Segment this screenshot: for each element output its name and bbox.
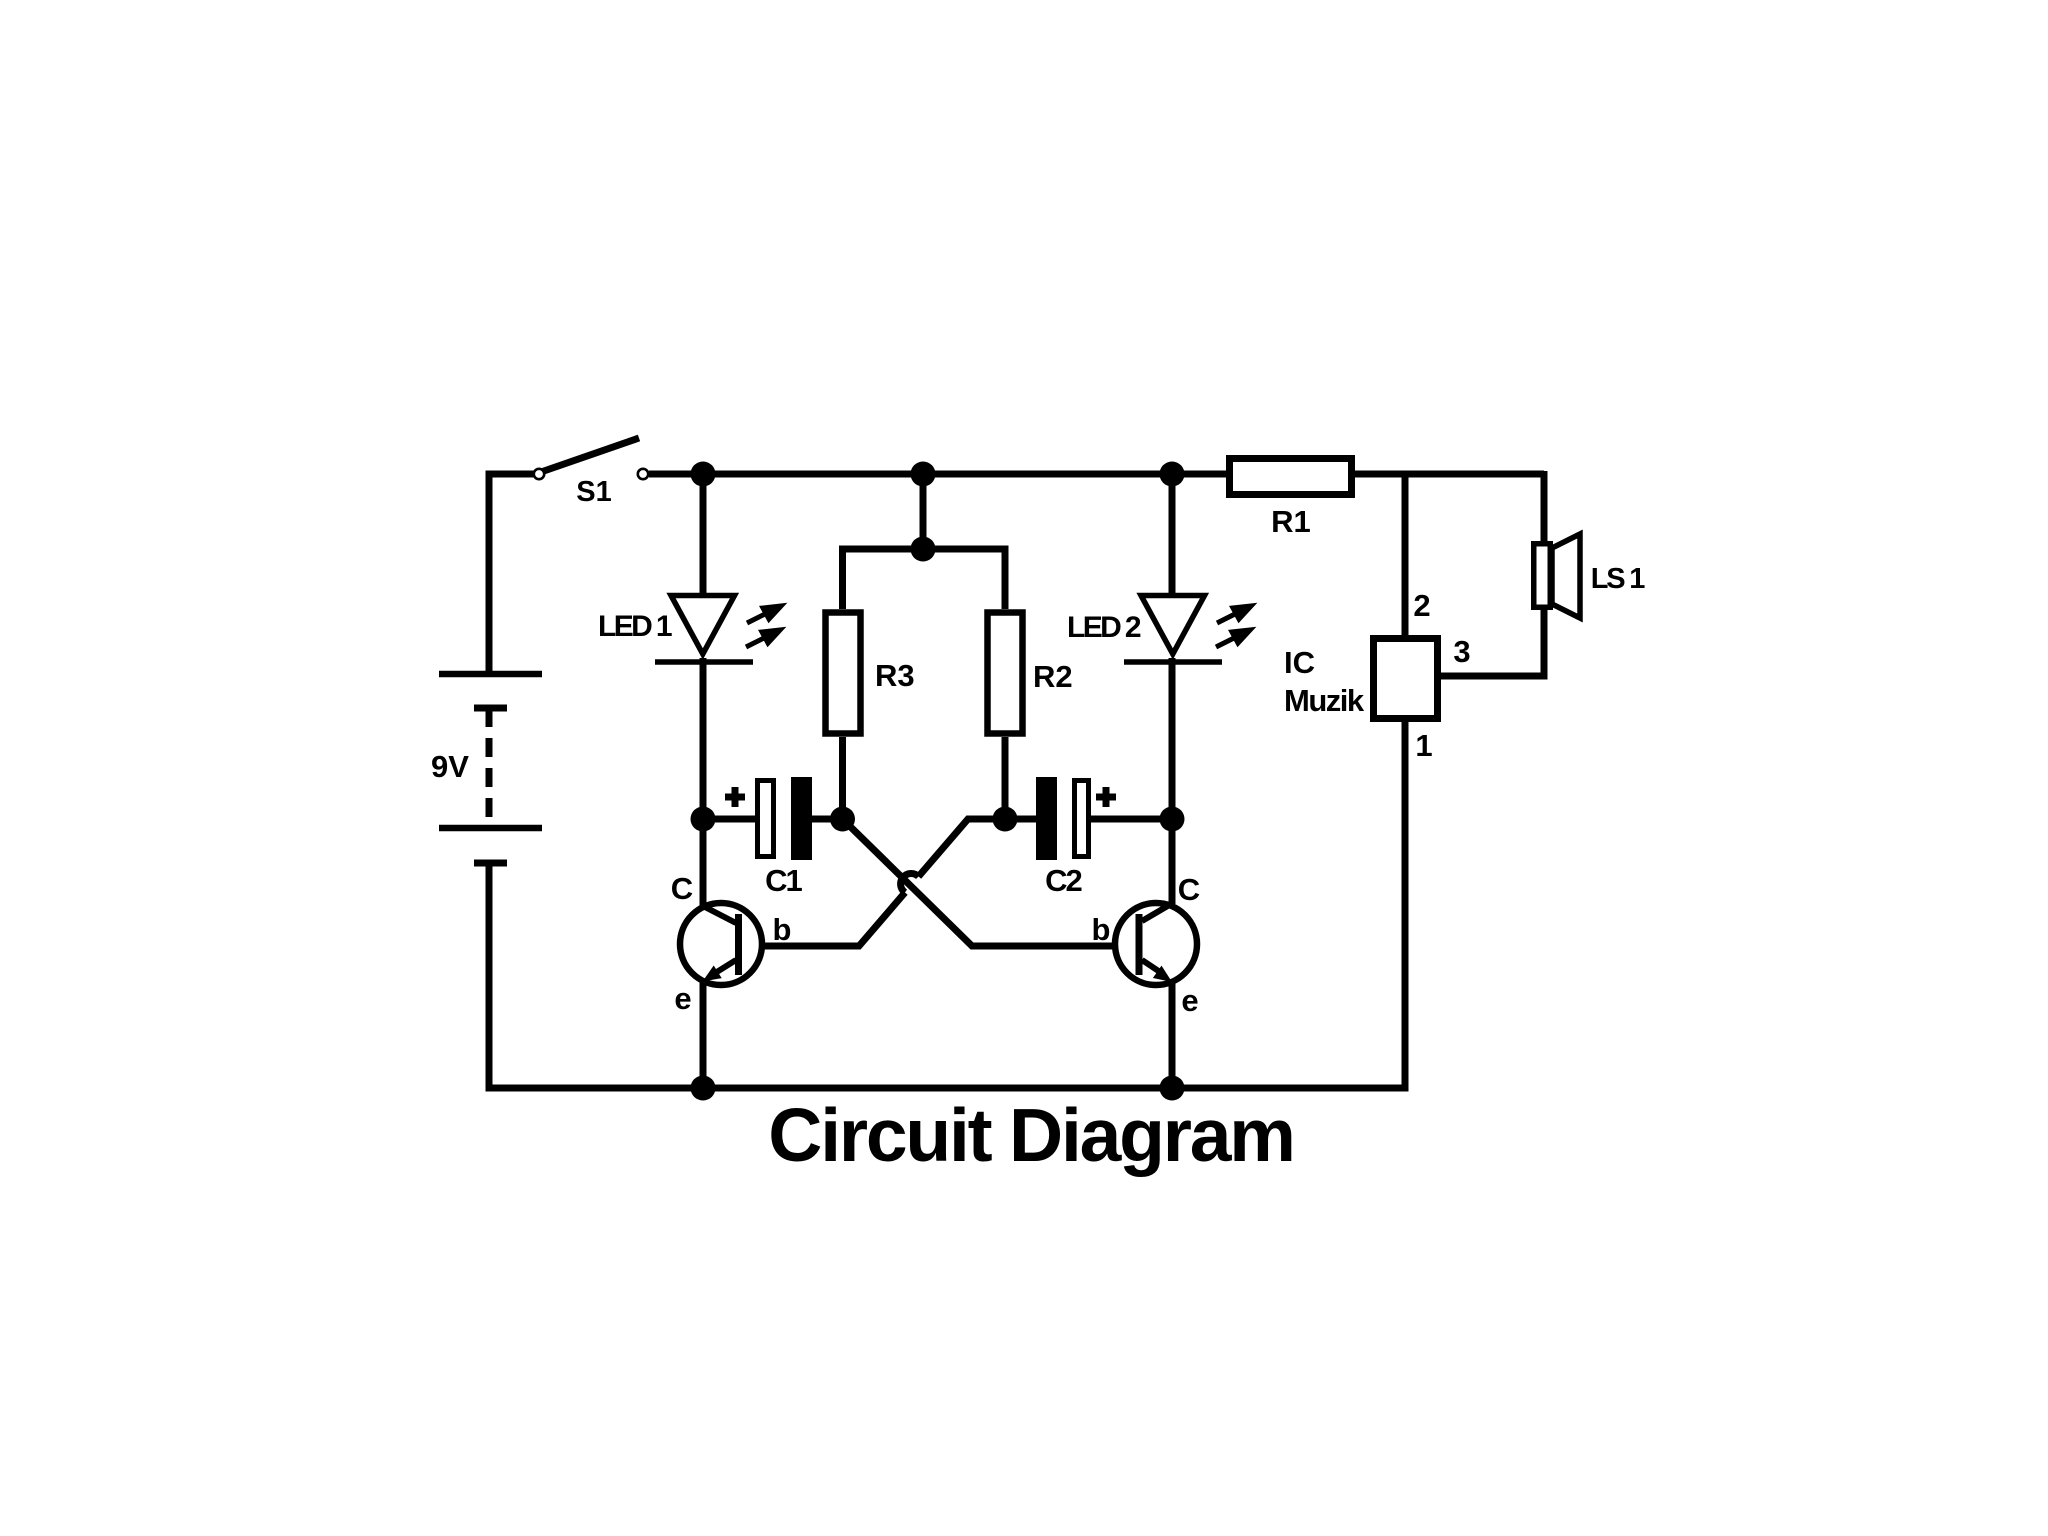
junction node G C2 left: [993, 807, 1018, 832]
svg-text:9V: 9V: [431, 749, 469, 784]
svg-text:2: 2: [1413, 588, 1430, 623]
svg-text:C2: C2: [1045, 863, 1081, 898]
wire speaker bottom to IC pin 3: [1441, 610, 1544, 676]
wire R2 bottom lead: [1002, 737, 1009, 819]
IC U1 music chip: [1374, 639, 1438, 719]
junction node top A: [691, 462, 716, 487]
svg-text:1: 1: [1415, 728, 1432, 763]
wire LED2 branch top: [1169, 474, 1176, 593]
resistor R3: [826, 613, 861, 734]
svg-text:S1: S1: [576, 476, 611, 508]
wire top rail: [649, 471, 1544, 478]
capacitor C1: [725, 777, 812, 860]
wire battery negative down: [486, 863, 493, 1091]
resistor R2: [988, 613, 1023, 734]
transistor Q1: [680, 903, 762, 985]
wire hop arc over crossing: [901, 873, 919, 892]
wire LED1 branch top: [700, 474, 707, 593]
wire LED1 cathode to Q1 collector: [700, 658, 707, 906]
wire C2 right lead: [1091, 816, 1172, 823]
wire IC pin 2: [1402, 474, 1409, 635]
junction node F C1 right: [830, 807, 855, 832]
junction node H C2 right: [1160, 807, 1185, 832]
svg-text:3: 3: [1453, 634, 1470, 669]
LED1 light arrows: [746, 606, 781, 647]
svg-text:R2: R2: [1033, 659, 1073, 694]
wire battery positive to switch: [489, 474, 534, 674]
wire Q1 emitter to bottom rail: [700, 980, 707, 1088]
svg-text:C1: C1: [765, 863, 802, 898]
wire cross-coupling Q1 base to node G (segment 2): [919, 819, 1006, 877]
junction node top C: [1160, 462, 1185, 487]
wire cross-coupling Q1 base to node G (segment 1, with hop gap): [742, 893, 905, 947]
LED D2: [1124, 596, 1222, 663]
wire bottom rail: [486, 1085, 1409, 1092]
junction node J bottom right: [1160, 1076, 1185, 1101]
wire C1 right lead: [811, 816, 842, 823]
junction node D divider top: [911, 537, 936, 562]
wire Q2 emitter to bottom rail: [1169, 982, 1176, 1088]
wire R3 bottom lead: [839, 737, 846, 819]
svg-text:R1: R1: [1271, 504, 1311, 539]
wire C2 left lead: [1005, 816, 1036, 823]
svg-text:b: b: [773, 912, 792, 947]
svg-text:LS 1: LS 1: [1591, 563, 1646, 595]
wire IC pin 1 down to bottom rail: [1402, 722, 1409, 1088]
svg-text:e: e: [1181, 983, 1198, 1018]
LED2 light arrows: [1216, 606, 1251, 647]
wire cross-coupling node F to Q2 base: [843, 819, 1136, 946]
svg-text:C: C: [1178, 872, 1200, 907]
svg-text:b: b: [1092, 912, 1111, 947]
svg-text:C: C: [671, 871, 693, 906]
svg-text:Muzik: Muzik: [1284, 683, 1365, 718]
resistor R1: [1230, 459, 1352, 495]
wire middle branch from top rail: [920, 474, 927, 549]
switch S1: [534, 438, 648, 479]
svg-text:LED 2: LED 2: [1067, 611, 1141, 644]
LED D1: [655, 596, 753, 663]
svg-text:LED 1: LED 1: [598, 610, 672, 643]
transistor Q2: [1115, 903, 1197, 985]
battery BT1 9V: [439, 674, 542, 863]
wire LED2 cathode to Q2 collector: [1169, 658, 1176, 904]
junction node E C1 left: [691, 807, 716, 832]
svg-text:R3: R3: [875, 658, 915, 693]
capacitor C2: [1036, 777, 1116, 860]
svg-text:IC: IC: [1284, 645, 1315, 680]
loudspeaker LS1: [1534, 534, 1580, 618]
junction node top B: [911, 462, 936, 487]
svg-text:Circuit Diagram: Circuit Diagram: [768, 1093, 1293, 1177]
wire R3/R2 top connector: [843, 546, 1006, 610]
junction node I bottom left: [691, 1076, 716, 1101]
svg-text:e: e: [674, 981, 691, 1016]
wire top rail corner down to speaker: [1541, 471, 1548, 541]
wire C1 left lead: [703, 816, 755, 823]
